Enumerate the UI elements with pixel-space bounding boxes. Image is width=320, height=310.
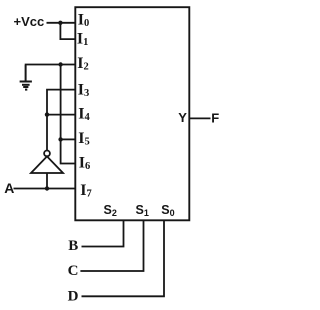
wire I4 pin stub <box>47 114 75 116</box>
wire inverter output bus to I3 <box>47 90 75 151</box>
junction Vcc/I1 branch <box>58 21 62 25</box>
junction I5/ground bus <box>58 137 62 141</box>
svg-text:D: D <box>68 289 79 305</box>
wire A to I7 pin <box>14 188 76 190</box>
wire Vcc to I0 pin <box>47 22 76 24</box>
wire Y to F <box>189 117 210 119</box>
svg-text:S1: S1 <box>136 203 149 218</box>
junction I4/inverter bus <box>45 112 49 116</box>
multiplexer U1 body <box>75 7 189 220</box>
wire ground to I2 pin <box>26 64 76 67</box>
svg-text:I3: I3 <box>78 81 89 99</box>
junction A/inverter input <box>45 186 49 190</box>
svg-text:S2: S2 <box>104 203 117 218</box>
svg-text:B: B <box>68 238 78 254</box>
svg-text:I7: I7 <box>80 182 91 200</box>
wire ground bus vertical to I6 <box>61 65 76 164</box>
svg-text:I2: I2 <box>77 55 88 73</box>
svg-text:I0: I0 <box>78 11 89 29</box>
svg-text:I1: I1 <box>77 30 88 48</box>
wire inverter input stub <box>46 173 48 189</box>
svg-text:Y: Y <box>178 110 187 125</box>
wire Vcc branch to I1 pin <box>60 23 75 39</box>
svg-text:F: F <box>211 110 219 125</box>
svg-text:I4: I4 <box>78 105 90 123</box>
wire S1 pin to C <box>80 220 143 271</box>
ground <box>20 65 32 90</box>
svg-text:I6: I6 <box>79 154 90 172</box>
svg-text:S0: S0 <box>161 203 174 218</box>
svg-text:A: A <box>4 180 14 196</box>
junction I2/ground bus <box>58 62 62 66</box>
svg-text:I5: I5 <box>78 130 89 148</box>
wire S2 pin to B <box>82 220 124 246</box>
op-amp style inverter U2 (NOT gate, output bubble on top) <box>44 151 50 157</box>
wire S0 pin to D <box>82 220 165 296</box>
wire I5 pin stub <box>61 138 76 140</box>
svg-text:+Vcc: +Vcc <box>14 14 45 29</box>
svg-text:C: C <box>68 263 79 279</box>
